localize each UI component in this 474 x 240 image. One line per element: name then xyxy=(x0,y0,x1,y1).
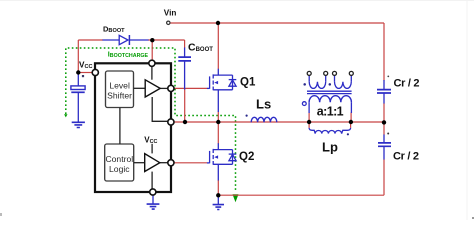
svg-text:Vin: Vin xyxy=(164,9,177,18)
svg-text:Ls: Ls xyxy=(256,97,271,112)
svg-text:a:1:1: a:1:1 xyxy=(317,105,344,119)
svg-text:Level: Level xyxy=(109,81,130,91)
svg-text:Logic: Logic xyxy=(109,164,130,174)
svg-text:Control: Control xyxy=(105,154,133,164)
svg-text:Cr / 2: Cr / 2 xyxy=(394,77,420,89)
svg-text:Shifter: Shifter xyxy=(107,91,132,101)
svg-text:Cr / 2: Cr / 2 xyxy=(393,151,419,163)
svg-text:Lp: Lp xyxy=(322,140,338,155)
svg-text:Q2: Q2 xyxy=(239,151,254,163)
svg-text:Q1: Q1 xyxy=(240,76,256,88)
